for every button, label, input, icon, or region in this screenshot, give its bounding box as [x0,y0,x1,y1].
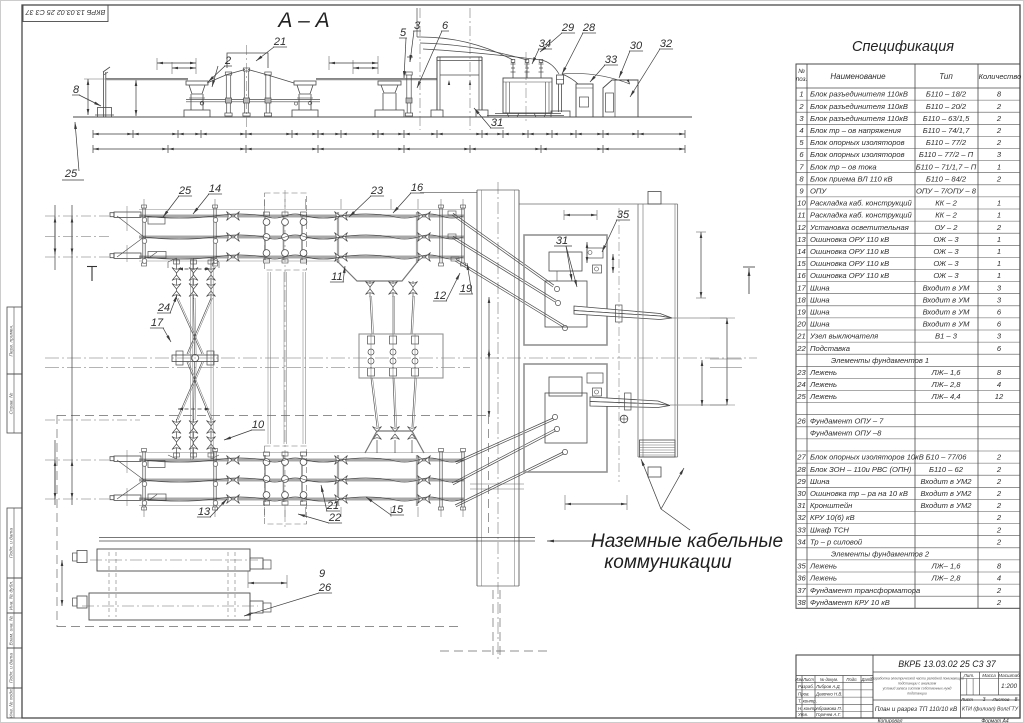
svg-text:8: 8 [1015,697,1018,703]
cylinder connectors [108,552,110,617]
svg-text:2: 2 [996,513,1002,522]
svg-text:22: 22 [328,512,341,524]
svg-text:Шина: Шина [810,320,830,329]
svg-text:План и разрез ТП 110/10 кВ: План и разрез ТП 110/10 кВ [875,706,958,713]
TSN cabinet 33 [576,84,593,117]
bus equipment rect top 1 [148,217,165,224]
svg-text:Шина: Шина [810,295,830,304]
section wires to transformer [417,37,513,60]
wire section mid [316,79,437,81]
svg-text:32: 32 [660,38,672,50]
dim cylinders left [61,560,63,606]
cylinder sleeper row 2 [89,593,250,620]
svg-text:32: 32 [797,513,806,522]
svg-text:34: 34 [797,537,805,546]
svg-text:Шкаф ТСН: Шкаф ТСН [810,525,849,534]
svg-text:Элементы фундаментов 1: Элементы фундаментов 1 [831,356,929,365]
bottom band columns [142,452,144,508]
svg-text:ЛЖ– 1,6: ЛЖ– 1,6 [930,562,961,571]
svg-text:Фундамент трансформатора: Фундамент трансформатора [810,586,920,595]
svg-text:30: 30 [630,40,643,52]
valve circle [620,415,628,423]
svg-text:Лежень: Лежень [809,574,837,583]
band junction circles bottom [142,462,147,467]
svg-text:Лежень: Лежень [809,368,837,377]
svg-text:11: 11 [798,211,806,220]
svg-text:Тип: Тип [939,72,953,81]
svg-text:Б110 – 74/1,7: Б110 – 74/1,7 [923,126,970,135]
svg-text:коммуникации: коммуникации [604,552,732,573]
svg-text:ЛЖ– 2,8: ЛЖ– 2,8 [930,380,961,389]
building ends [638,203,678,205]
building hatched block [640,440,676,457]
corridor crossing lines [470,483,524,485]
svg-text:12: 12 [434,290,446,302]
bracket 35 upper [587,248,603,258]
svg-text:условий запаса систем собствен: условий запаса систем собственных нужд [882,687,952,691]
right hourglass top cluster [369,281,371,297]
wire to KRU [562,73,630,84]
hourglass dim dashed top [178,268,210,270]
right hourglass wires upper [370,296,372,334]
svg-text:Ошиновка ОРУ 110 кВ: Ошиновка ОРУ 110 кВ [810,247,889,256]
svg-text:ОПУ – 7/ОПУ – 8: ОПУ – 7/ОПУ – 8 [916,187,977,196]
svg-text:21: 21 [326,500,339,512]
svg-text:Входит в УМ: Входит в УМ [923,295,971,304]
svg-text:Входит в УМ: Входит в УМ [923,320,971,329]
band junction circles top [142,218,147,223]
svg-text:21: 21 [796,332,805,341]
svg-text:2: 2 [224,55,231,67]
svg-text:Блок опорных изоляторов: Блок опорных изоляторов [810,138,905,147]
svg-text:Наземные кабельные: Наземные кабельные [591,531,783,552]
svg-text:Блок ЗОН – 110и РВС (ОПН): Блок ЗОН – 110и РВС (ОПН) [810,465,912,474]
dim bracket mid [328,56,330,70]
plan centerline horizontal [45,357,757,359]
svg-text:ОУ – 2: ОУ – 2 [935,223,959,232]
svg-text:Масса: Масса [982,673,996,678]
disconnector stand right [294,81,316,85]
dim bottom mid [565,503,627,505]
svg-text:28: 28 [582,22,596,34]
svg-text:11: 11 [331,271,342,283]
svg-text:2: 2 [996,174,1002,183]
left hourglass bottom cluster [176,419,178,459]
svg-text:37: 37 [797,586,806,595]
svg-text:15: 15 [797,259,806,268]
dim bracket left [156,58,158,70]
svg-text:Тр – р силовой: Тр – р силовой [810,537,863,546]
svg-text:Шина: Шина [810,283,830,292]
svg-text:Перв. примен.: Перв. примен. [8,325,14,357]
svg-text:14: 14 [209,183,221,195]
svg-text:№: № [798,68,805,75]
bay frame verticals bottom [337,455,339,506]
plan dim left mid [71,217,73,255]
svg-text:КТИ (филиал) ВолгГТУ: КТИ (филиал) ВолгГТУ [962,707,1019,713]
right portal top band [439,208,441,263]
svg-text:4: 4 [799,126,803,135]
svg-text:подстанции: подстанции [907,692,927,696]
funnel top band [337,261,418,281]
svg-text:15: 15 [391,504,404,516]
svg-text:Блок разъединителя 110кВ: Блок разъединителя 110кВ [810,102,908,111]
bus equipment rect bottom 2 [148,494,166,501]
svg-text:31: 31 [797,501,805,510]
svg-text:Либров А.Д.: Либров А.Д. [815,684,841,689]
svg-text:Кронштейн: Кронштейн [810,501,853,510]
svg-text:13: 13 [198,506,211,518]
svg-text:Установка осветительная: Установка осветительная [809,223,909,232]
svg-text:21: 21 [273,36,286,48]
dim upper box [564,214,597,216]
svg-text:Лист: Лист [960,697,973,702]
svg-text:9: 9 [319,568,325,580]
svg-text:25: 25 [178,185,192,197]
svg-text:35: 35 [797,562,806,571]
dim right vertical 2 [701,360,703,406]
svg-text:Подставка: Подставка [810,344,850,353]
svg-text:Лист: Лист [802,677,814,682]
equipment box upper [524,235,607,345]
top stamp box [23,5,108,22]
bus wires bottom band [144,458,463,462]
svg-text:ОЖ – 3: ОЖ – 3 [933,235,959,244]
svg-text:1: 1 [997,211,1001,220]
section mark T left [87,266,97,268]
fence dashed top [57,415,489,417]
section wires W [207,70,294,84]
svg-text:А – А: А – А [276,9,329,32]
right portal bottom band [439,452,441,508]
section ground line [73,116,692,118]
insulator column 2 [243,68,249,71]
dashed boundary right [492,590,494,656]
KRU cabinet 32 [603,80,638,117]
svg-text:Блок разъединителя 110кВ: Блок разъединителя 110кВ [810,90,908,99]
transformer rails [487,115,564,117]
svg-text:6: 6 [442,20,449,32]
svg-text:ОЖ – 3: ОЖ – 3 [933,247,959,256]
svg-text:30: 30 [797,489,806,498]
svg-text:КРУ 10(6) кВ: КРУ 10(6) кВ [810,513,855,522]
section dim chain upper [93,133,685,135]
svg-text:Блок разъединителя 110кВ: Блок разъединителя 110кВ [810,114,908,123]
building bottom cap [648,467,661,477]
fence dashed left [56,415,58,627]
svg-text:КК – 2: КК – 2 [935,211,957,220]
svg-text:8: 8 [73,84,80,96]
svg-text:Б110 – 77/2: Б110 – 77/2 [926,138,967,147]
tension insulators bottom band [227,456,240,465]
building top cap [648,192,661,205]
equipment 31 lower [549,377,582,396]
svg-text:2: 2 [996,223,1002,232]
svg-text:17: 17 [797,283,806,292]
specification table grid [796,64,1020,608]
svg-text:Б110 – 77/2 – П: Б110 – 77/2 – П [919,150,974,159]
insulator TV [406,72,412,75]
portal column rails [267,272,269,444]
plan centerline corridor [497,182,499,660]
svg-text:2: 2 [996,102,1002,111]
diagonal feeders upper [448,211,456,215]
svg-text:Фундамент КРУ 10 кВ: Фундамент КРУ 10 кВ [810,598,890,607]
cylinder dim [248,582,287,584]
plan dim left top [54,217,56,255]
diagonal feeders lower [455,418,553,462]
transformer 34 body [503,78,552,113]
svg-text:Справ. №: Справ. № [8,393,14,415]
svg-text:2: 2 [996,126,1002,135]
svg-text:Горячев А.Г.: Горячев А.Г. [816,712,841,717]
svg-text:33: 33 [797,525,806,534]
svg-text:28: 28 [796,465,806,474]
svg-text:23: 23 [370,185,384,197]
svg-text:2: 2 [996,465,1002,474]
svg-text:29: 29 [796,477,806,486]
svg-text:Девочко Н.В.: Девочко Н.В. [815,691,843,696]
dim right vertical 3 [726,318,728,405]
left hourglass wires lower [177,362,203,420]
svg-text:24: 24 [157,302,170,314]
svg-text:20: 20 [796,320,806,329]
insulator column 1 [225,72,231,75]
wire to arrester [541,60,559,74]
svg-text:Шина: Шина [810,477,830,486]
svg-text:Лежень: Лежень [809,562,837,571]
svg-text:Б110 – 18/2: Б110 – 18/2 [926,90,967,99]
svg-text:33: 33 [605,54,618,66]
wire section left [106,79,188,81]
bus row bottom band [139,459,464,462]
stub cross wires top [117,216,144,237]
svg-text:Спецификация: Спецификация [852,39,954,55]
svg-text:Разработка электрической части: Разработка электрической части релейной … [870,677,964,681]
disconnector stand left [186,81,208,85]
svg-text:1: 1 [997,247,1001,256]
svg-text:Пров.: Пров. [798,691,810,696]
svg-text:26: 26 [796,416,806,425]
svg-text:1: 1 [799,90,803,99]
svg-text:2: 2 [996,586,1002,595]
svg-text:Входит в УМ2: Входит в УМ2 [920,489,972,498]
svg-text:Б110 – 71/1,7 – П: Б110 – 71/1,7 – П [916,162,977,171]
dim beam height [135,80,137,116]
svg-text:23: 23 [796,368,806,377]
left hourglass top cluster [176,258,178,299]
building wall right [674,204,676,457]
svg-text:подстанции с анализом: подстанции с анализом [898,682,937,686]
svg-text:2: 2 [996,114,1002,123]
svg-text:Ошиновка ОРУ 110 кВ: Ошиновка ОРУ 110 кВ [810,235,889,244]
svg-text:Входит в УМ: Входит в УМ [923,308,971,317]
svg-text:2: 2 [996,598,1002,607]
svg-text:Блок тр – ов напряжения: Блок тр – ов напряжения [810,126,901,135]
svg-text:Масштаб: Масштаб [998,673,1020,678]
svg-text:ЛЖ– 4,4: ЛЖ– 4,4 [930,392,960,401]
svg-text:Наименование: Наименование [830,72,886,81]
equipment box lower [524,364,607,472]
center portal bottom [265,446,307,524]
svg-text:ОЖ – 3: ОЖ – 3 [933,259,959,268]
svg-text:22: 22 [796,344,806,353]
dim right vertical 1 [700,232,702,298]
svg-text:Взам. инв. №: Взам. инв. № [8,616,14,646]
bus row top band [139,215,464,218]
right hourglass bottom cluster [373,427,382,440]
dim post 8 [87,79,89,115]
section dim chain lower [93,148,685,150]
cylinder sleeper row 1 [97,549,250,571]
center rect right hourglass [359,334,443,378]
svg-text:Узел выключателя: Узел выключателя [809,332,878,341]
svg-text:Блок опорных изоляторов: Блок опорных изоляторов [810,150,905,159]
fence dashed right [488,415,490,533]
svg-text:3: 3 [983,697,986,703]
left margin boxes [7,307,22,374]
svg-text:12: 12 [797,223,806,232]
svg-text:Элементы фундаментов 2: Элементы фундаментов 2 [831,550,930,559]
top band columns [142,208,144,263]
svg-text:Лит.: Лит. [963,673,975,678]
stub cross wires bottom [117,460,144,480]
level mark arrow [743,266,755,268]
svg-text:38: 38 [797,598,806,607]
svg-text:Б10 – 77/06: Б10 – 77/06 [926,453,968,462]
svg-text:2: 2 [996,477,1002,486]
svg-text:1: 1 [997,259,1001,268]
svg-text:Входит в УМ2: Входит в УМ2 [920,501,972,510]
svg-text:2: 2 [996,489,1002,498]
stub tick marks top [126,206,128,231]
insulator column 3 [265,72,271,75]
svg-text:10: 10 [252,419,265,431]
svg-text:1:200: 1:200 [1001,683,1017,690]
bus equipment rect bottom 1 [148,461,165,468]
fence line right of corridor [519,203,638,205]
svg-text:Инв. № дубл.: Инв. № дубл. [8,581,14,611]
title block [796,655,1020,718]
svg-text:31: 31 [491,117,503,129]
svg-text:1: 1 [997,199,1001,208]
svg-text:Изм: Изм [795,677,803,682]
svg-text:Т. контр.: Т. контр. [798,699,817,704]
transformer wheels [507,113,519,117]
hourglass tall rails [190,258,192,460]
svg-text:Количество: Количество [979,72,1022,81]
bus stubs bottom left [114,456,141,461]
svg-text:Ошиновка ОРУ 110 кВ: Ошиновка ОРУ 110 кВ [810,271,889,280]
svg-text:Б110 – 62: Б110 – 62 [929,465,964,474]
svg-text:Ошиновка ОРУ 110 кВ: Ошиновка ОРУ 110 кВ [810,259,889,268]
plan dim left bottom [54,460,56,499]
svg-text:Лежень: Лежень [809,380,837,389]
svg-text:1: 1 [997,162,1001,171]
svg-text:Подп. и дата: Подп. и дата [8,653,14,683]
arrester stand 28 [558,84,560,112]
svg-text:2: 2 [996,453,1002,462]
svg-text:ЛЖ– 2,8: ЛЖ– 2,8 [930,574,961,583]
svg-text:16: 16 [797,271,806,280]
svg-text:25: 25 [64,168,78,180]
svg-text:Входит в УМ2: Входит в УМ2 [920,477,972,486]
svg-text:Раскладка каб. конструкций: Раскладка каб. конструкций [810,211,913,220]
svg-text:Блок тр – ов тока: Блок тр – ов тока [810,162,877,171]
annotation leaders [547,540,604,542]
svg-text:ВКРБ 13.03.02 25 С3 37: ВКРБ 13.03.02 25 С3 37 [25,8,106,17]
svg-text:31: 31 [556,235,568,247]
svg-text:Блок опорных изоляторов 10кВ: Блок опорных изоляторов 10кВ [810,453,924,462]
svg-text:ОЖ – 3: ОЖ – 3 [933,271,959,280]
svg-text:24: 24 [796,380,805,389]
extension lines bottom band [143,507,145,517]
support post 8 [103,72,105,117]
transformer bushings [512,62,514,78]
corridor walls [476,190,478,586]
extension lines top band [143,199,145,209]
surge arrester arrow upper [574,306,672,318]
tension insulators top band [227,212,240,221]
funnel bottom band [365,431,424,453]
center portal top [265,193,307,270]
svg-text:2: 2 [996,537,1002,546]
svg-text:ВКРБ 13.03.02 25 С3 37: ВКРБ 13.03.02 25 С3 37 [898,659,997,669]
svg-text:Инв. № подл.: Инв. № подл. [8,688,14,718]
svg-text:Подп. и дата: Подп. и дата [8,528,14,558]
svg-text:Блок приема ВЛ 110 кВ: Блок приема ВЛ 110 кВ [810,174,893,183]
svg-text:В1 – 3: В1 – 3 [935,332,958,341]
right hourglass wires lower [371,378,377,427]
plan centerline portal column [284,190,286,530]
svg-text:13: 13 [797,235,806,244]
svg-text:1: 1 [997,235,1001,244]
svg-text:29: 29 [561,22,574,34]
svg-text:Утв.: Утв. [798,712,808,717]
svg-text:2: 2 [996,501,1002,510]
bus wires top band [144,214,463,218]
svg-text:18: 18 [797,295,806,304]
svg-text:1: 1 [997,271,1001,280]
surge arrester arrow lower [590,397,670,406]
svg-text:14: 14 [797,247,805,256]
svg-text:Фундамент ОПУ –8: Фундамент ОПУ –8 [810,429,882,438]
svg-text:Н. контр.: Н. контр. [798,706,818,711]
svg-text:36: 36 [797,574,806,583]
bay frame verticals top [337,212,339,263]
svg-text:19: 19 [797,308,806,317]
svg-text:Б110 – 20/2: Б110 – 20/2 [926,102,967,111]
svg-text:ЛЖ– 1,6: ЛЖ– 1,6 [930,368,961,377]
svg-text:25: 25 [796,392,806,401]
equipment 31 upper [549,252,582,271]
clamp centerline dashed [618,208,620,482]
svg-text:27: 27 [796,453,806,462]
svg-text:Лежень: Лежень [809,392,837,401]
svg-text:поз.: поз. [796,76,807,83]
svg-text:2: 2 [996,525,1002,534]
svg-text:4: 4 [997,380,1001,389]
mid rail [186,99,320,101]
ground cable line [99,537,535,539]
building wall left [637,204,639,457]
svg-text:26: 26 [318,582,332,594]
svg-text:ОПУ: ОПУ [810,187,827,196]
svg-text:Раскладка каб. конструкций: Раскладка каб. конструкций [810,199,913,208]
svg-text:Разраб.: Разраб. [798,684,814,689]
svg-text:Копировал: Копировал [878,719,903,723]
fence line left of corridor [420,192,477,194]
